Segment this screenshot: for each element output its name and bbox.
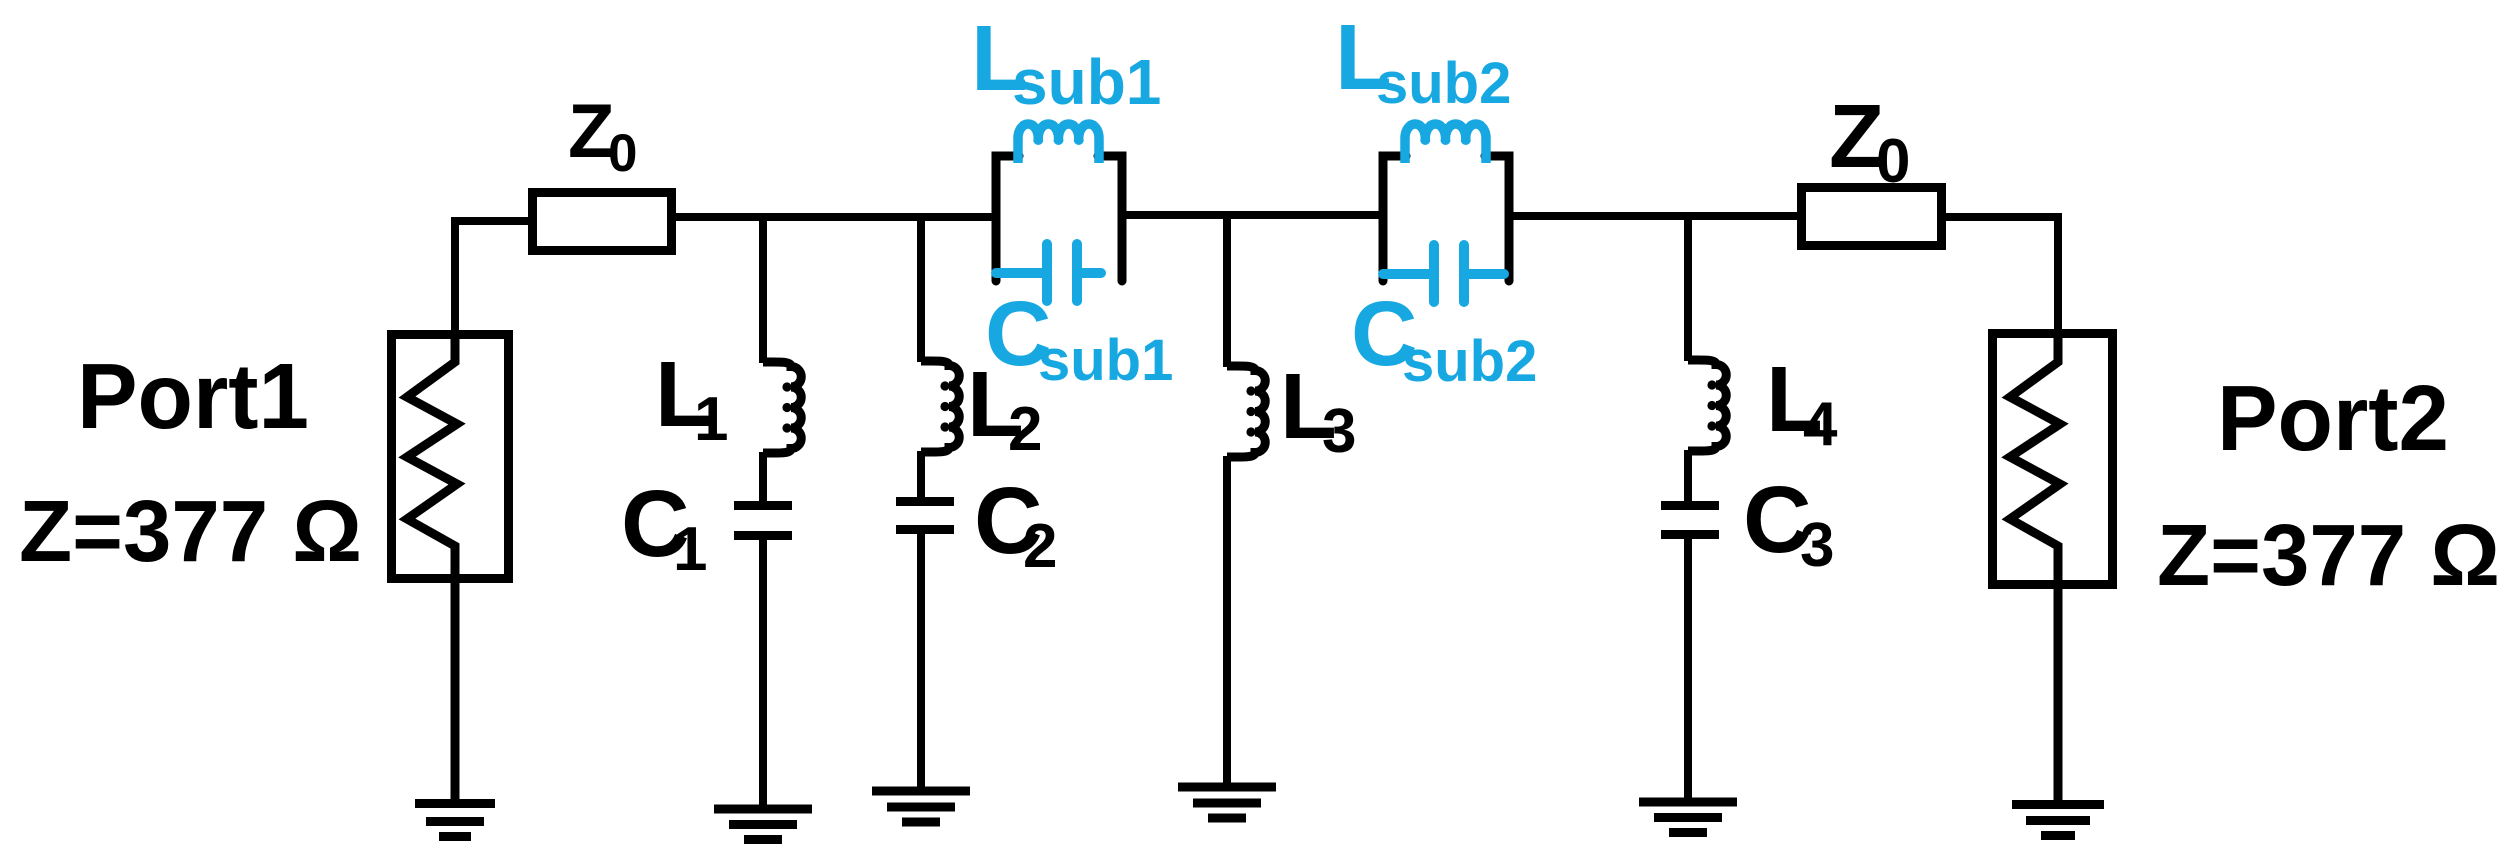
wire: C3 to ground bbox=[1684, 532, 1692, 802]
wire: shunt branch L2 upper bbox=[917, 213, 925, 362]
svg-text:sub1: sub1 bbox=[1012, 46, 1161, 118]
port P2 resistor box bbox=[1993, 334, 2113, 585]
svg-text:sub2: sub2 bbox=[1402, 329, 1537, 394]
inductor Lsub1 (cyan) bbox=[1018, 124, 1099, 163]
ground for L3 branch bbox=[1178, 787, 1276, 818]
inductor Lsub2 (cyan) bbox=[1405, 124, 1486, 163]
wire: shunt branch L4 upper bbox=[1684, 212, 1692, 361]
wire: L3 to ground bbox=[1223, 456, 1231, 787]
svg-text:1: 1 bbox=[673, 515, 707, 584]
svg-text:Z=377 Ω: Z=377 Ω bbox=[2157, 507, 2500, 604]
ground for L4 branch bbox=[1639, 802, 1737, 833]
wire: shunt branch L3 upper bbox=[1223, 213, 1231, 367]
wire: L1 to C1 bbox=[759, 452, 767, 505]
transmission line Z0 left bbox=[533, 193, 672, 251]
port P1 resistor box bbox=[392, 335, 509, 579]
tank1 black bracket left bbox=[996, 156, 1019, 281]
capacitor Csub2 (cyan) bbox=[1383, 245, 1504, 302]
svg-text:Port2: Port2 bbox=[2217, 366, 2449, 470]
resistor R-port1 zigzag bbox=[407, 334, 457, 803]
svg-text:3: 3 bbox=[1322, 397, 1356, 466]
svg-text:sub1: sub1 bbox=[1038, 328, 1173, 393]
wire: shunt branch L1 upper bbox=[759, 213, 767, 363]
wire: L2 to C2 bbox=[917, 451, 925, 501]
wire: L4 to C3 bbox=[1684, 450, 1692, 505]
svg-text:0: 0 bbox=[1876, 127, 1910, 196]
svg-text:2: 2 bbox=[1008, 395, 1042, 464]
ground for L2 branch bbox=[872, 791, 970, 822]
svg-text:sub2: sub2 bbox=[1376, 51, 1511, 116]
wire: C2 to ground bbox=[917, 527, 925, 791]
svg-text:4: 4 bbox=[1803, 390, 1838, 459]
svg-text:Port1: Port1 bbox=[77, 344, 309, 448]
capacitor C2 bbox=[896, 502, 954, 530]
transmission line Z0 right bbox=[1802, 188, 1942, 246]
ground for L1 branch bbox=[714, 809, 812, 840]
inductor L1 bbox=[763, 362, 801, 453]
wire: main bus tank2 to Z0 right bbox=[1505, 212, 1801, 220]
inductor L4 bbox=[1688, 360, 1726, 451]
wire: C1 to ground bbox=[759, 533, 767, 809]
inductor L2 bbox=[921, 361, 959, 452]
svg-text:1: 1 bbox=[694, 385, 728, 454]
wire: Z0 right to Port2 bbox=[1942, 217, 2058, 334]
capacitor C3 bbox=[1661, 506, 1719, 535]
svg-text:Z=377 Ω: Z=377 Ω bbox=[19, 483, 362, 580]
tank1 black bracket right bbox=[1098, 156, 1122, 281]
capacitor C1 bbox=[734, 506, 792, 536]
tank2 black bracket left bbox=[1383, 156, 1406, 281]
capacitor Csub1 (cyan) bbox=[996, 244, 1101, 301]
ground for Port1 bbox=[415, 804, 495, 837]
ground for Port2 bbox=[2012, 805, 2104, 836]
tank2 black bracket right bbox=[1485, 156, 1509, 281]
wire: main bus tank1 to tank2 bbox=[1118, 211, 1387, 219]
svg-text:0: 0 bbox=[608, 124, 637, 183]
svg-text:2: 2 bbox=[1023, 512, 1057, 581]
wire: main bus from Z0 left to tank1 bbox=[672, 213, 1000, 221]
inductor L3 bbox=[1227, 366, 1265, 457]
wire: Port1 lead to Z0 left bbox=[455, 221, 528, 334]
resistor R-port2 zigzag bbox=[2010, 334, 2060, 804]
svg-text:3: 3 bbox=[1800, 511, 1834, 580]
